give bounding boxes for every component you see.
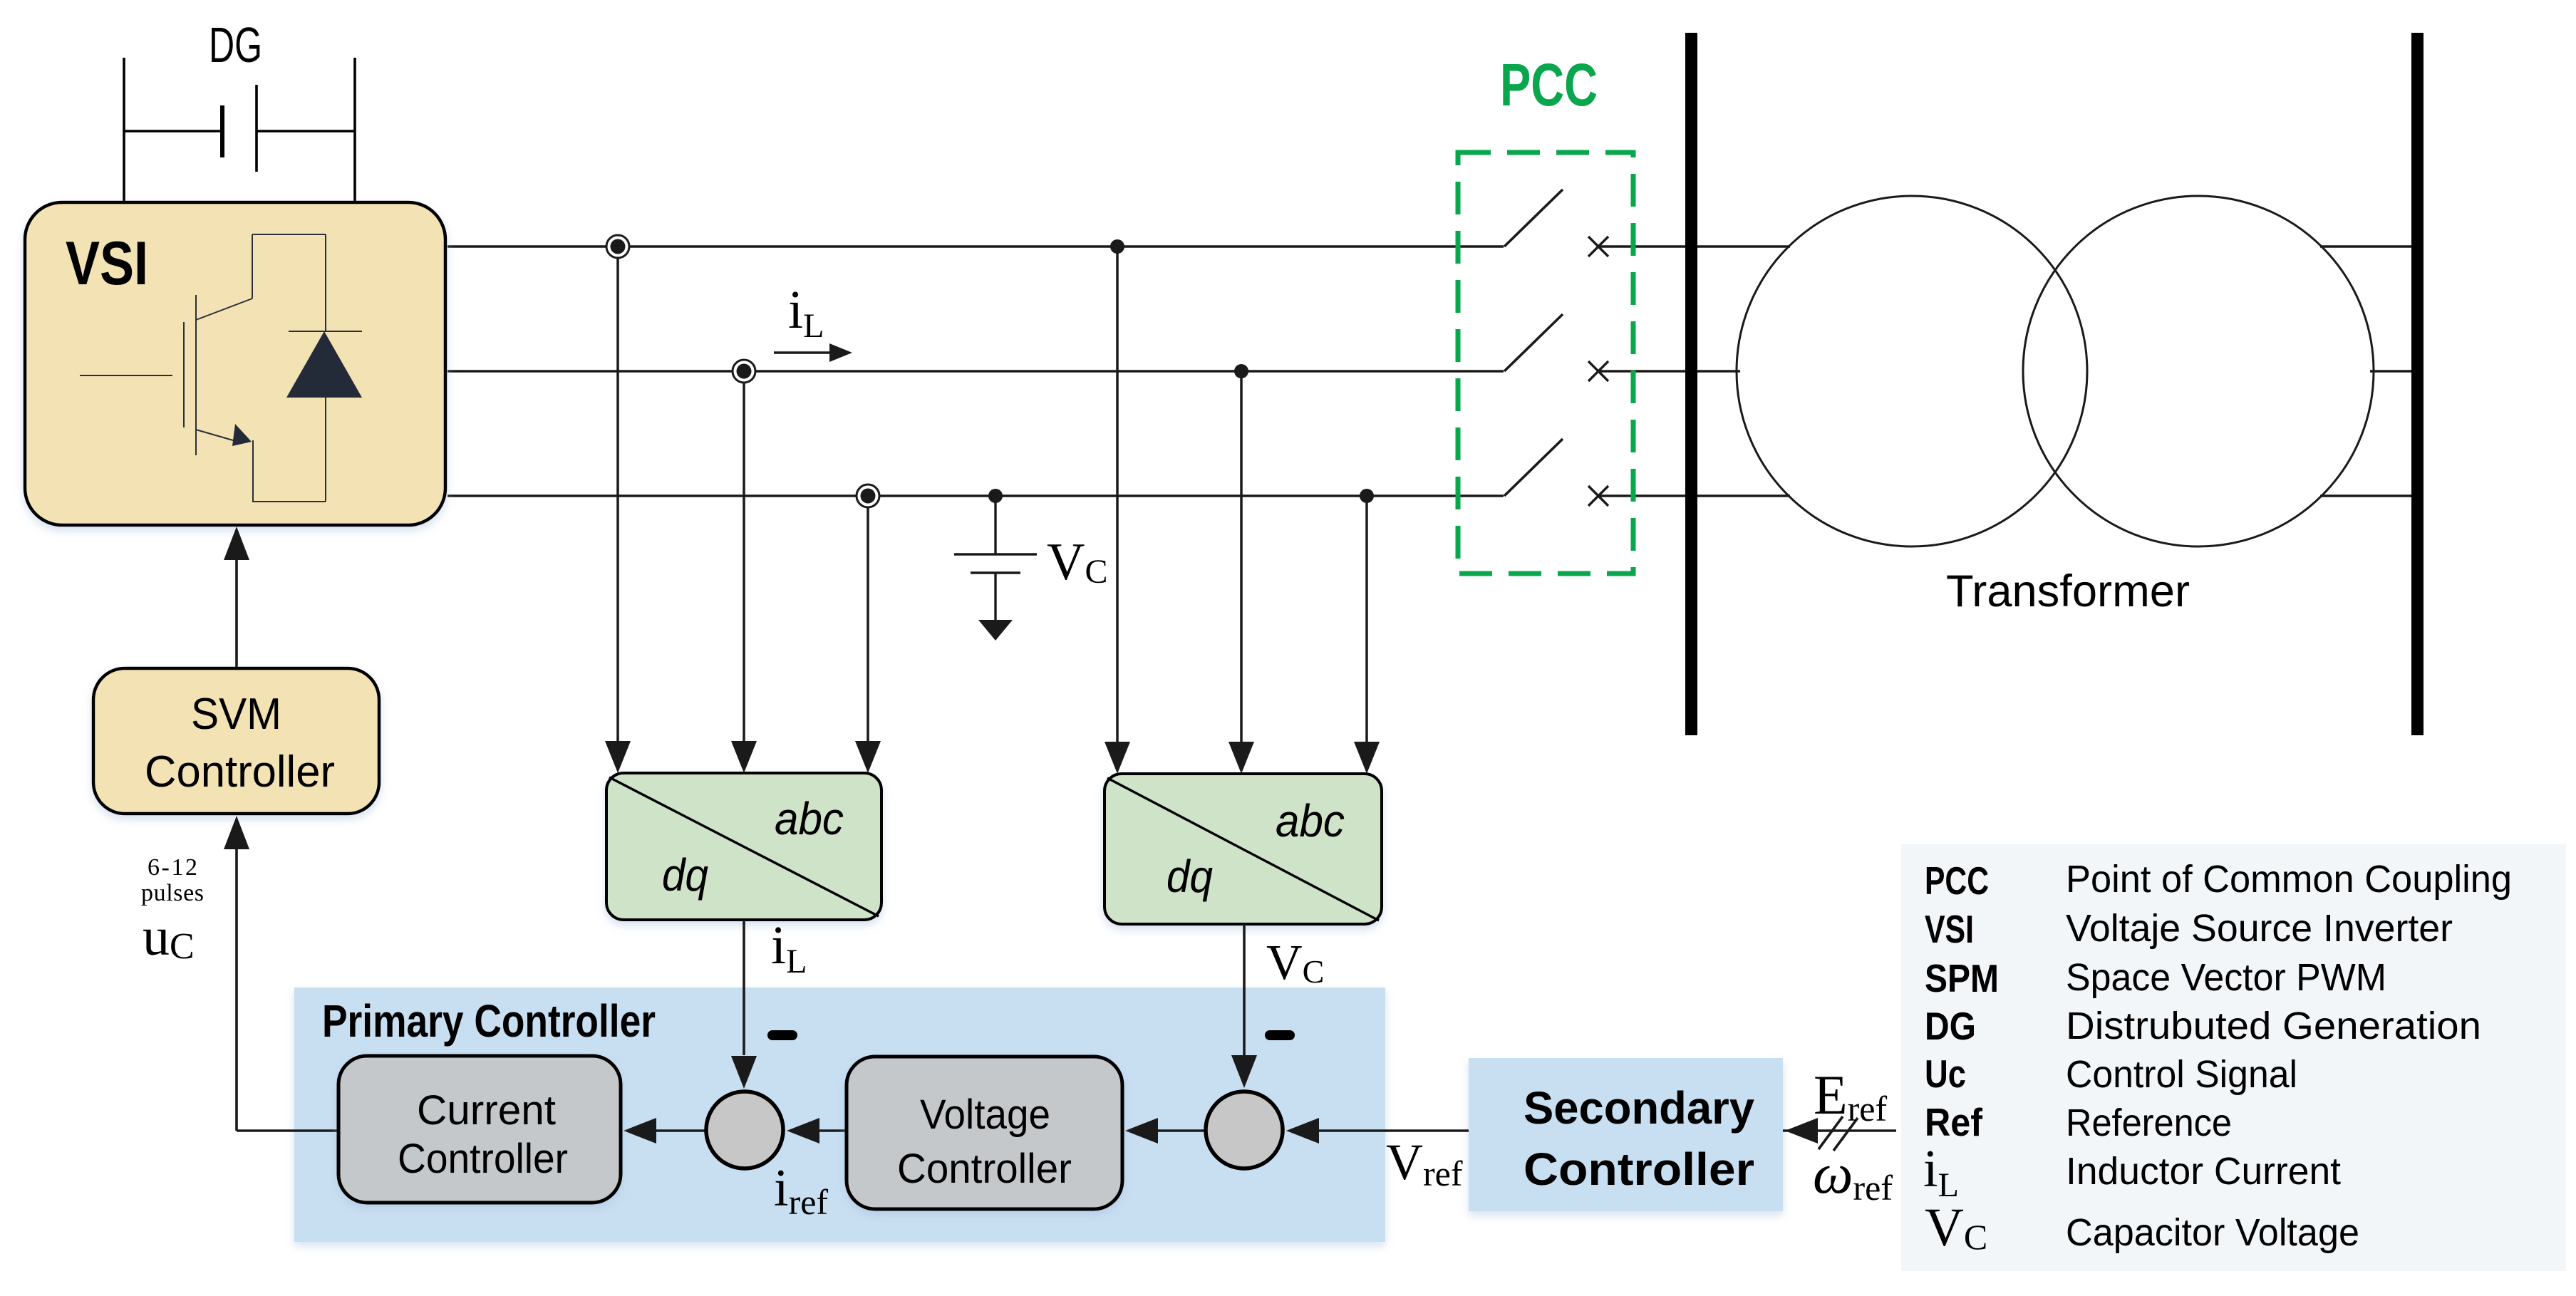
svg-text:DG: DG <box>1925 1004 1976 1048</box>
svg-text:iL: iL <box>771 916 807 980</box>
svg-text:ωref: ωref <box>1813 1143 1893 1208</box>
svg-text:Eref: Eref <box>1814 1064 1887 1129</box>
svg-text:pulses: pulses <box>141 880 204 906</box>
svg-text:iL: iL <box>788 280 824 345</box>
svg-text:Primary Controller: Primary Controller <box>322 995 656 1047</box>
svg-text:Controller: Controller <box>145 747 335 797</box>
svg-text:Space Vector PWM: Space Vector PWM <box>2066 956 2386 999</box>
svg-text:Voltaje Source Inverter: Voltaje Source Inverter <box>2066 907 2453 950</box>
svg-text:Distrubuted Generation: Distrubuted Generation <box>2066 1005 2481 1047</box>
svg-text:Ref: Ref <box>1925 1100 1983 1144</box>
svg-text:VC: VC <box>1047 533 1107 591</box>
svg-text:uC: uC <box>143 907 195 967</box>
svg-text:Capacitor Voltage: Capacitor Voltage <box>2066 1211 2359 1254</box>
svg-text:Control Signal: Control Signal <box>2066 1053 2297 1096</box>
svg-text:Voltage: Voltage <box>920 1092 1050 1138</box>
svg-text:VSI: VSI <box>1925 907 1974 951</box>
svg-text:Point of Common Coupling: Point of Common Coupling <box>2066 858 2512 901</box>
svg-text:Vref: Vref <box>1386 1134 1463 1193</box>
svg-text:PCC: PCC <box>1925 859 1989 903</box>
svg-text:dq: dq <box>662 849 708 901</box>
svg-text:abc: abc <box>775 793 844 844</box>
svg-text:6-12: 6-12 <box>148 854 197 881</box>
svg-text:dq: dq <box>1167 851 1213 902</box>
svg-text:Transformer: Transformer <box>1946 566 2190 616</box>
svg-text:VC: VC <box>1266 935 1324 990</box>
svg-text:abc: abc <box>1276 795 1345 846</box>
svg-text:Inductor Current: Inductor Current <box>2066 1150 2341 1193</box>
svg-text:Secondary: Secondary <box>1524 1082 1754 1134</box>
svg-text:DG: DG <box>209 17 262 73</box>
svg-text:VSI: VSI <box>66 229 148 298</box>
svg-text:Uc: Uc <box>1925 1052 1966 1096</box>
svg-text:SVM: SVM <box>191 690 281 739</box>
svg-text:Reference: Reference <box>2066 1101 2232 1144</box>
svg-text:Controller: Controller <box>398 1136 568 1182</box>
svg-text:Current: Current <box>417 1087 556 1134</box>
svg-text:PCC: PCC <box>1500 51 1598 118</box>
svg-text:Controller: Controller <box>897 1146 1072 1192</box>
svg-text:Controller: Controller <box>1524 1144 1754 1195</box>
svg-text:SPM: SPM <box>1925 956 1999 1000</box>
